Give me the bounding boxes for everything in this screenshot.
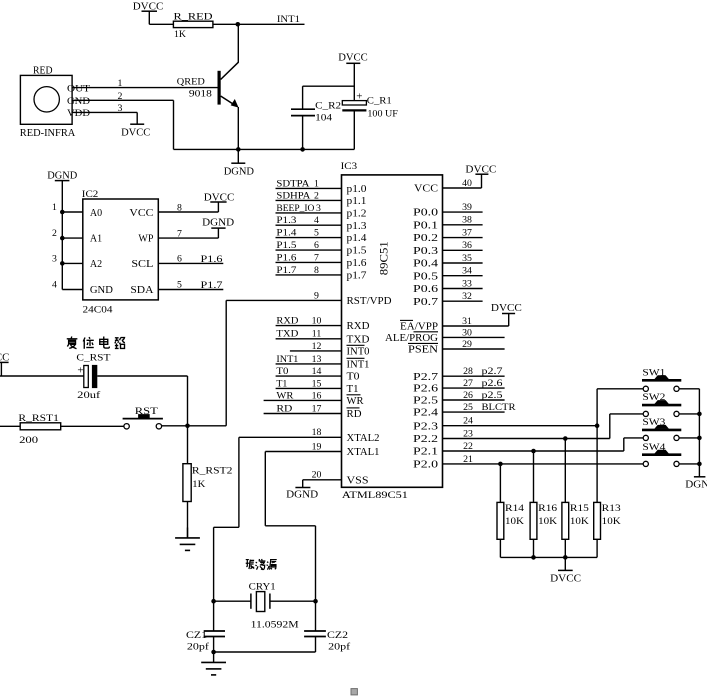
svg-text:C_R1: C_R1 xyxy=(367,96,392,107)
svg-text:200: 200 xyxy=(19,435,38,446)
svg-text:P0.3: P0.3 xyxy=(413,246,438,257)
svg-text:25: 25 xyxy=(463,402,473,413)
resistor R16 10K xyxy=(530,451,557,557)
svg-text:DGND: DGND xyxy=(202,217,234,228)
ground earth (R_RST2) xyxy=(175,528,200,551)
svg-text:3: 3 xyxy=(316,203,321,214)
svg-text:RD: RD xyxy=(347,409,362,420)
power DVCC flag (IC3 pin31) xyxy=(491,303,522,326)
node R13/pin24 junction xyxy=(595,423,600,428)
node reset junction xyxy=(185,424,190,429)
svg-text:89C51: 89C51 xyxy=(379,241,391,275)
svg-text:T0: T0 xyxy=(276,366,288,377)
svg-text:INT1: INT1 xyxy=(276,354,298,365)
switch SW3 xyxy=(624,417,700,451)
node R14/pin21 junction xyxy=(498,462,503,467)
svg-text:SDTPA: SDTPA xyxy=(276,178,309,189)
svg-text:p2.5: p2.5 xyxy=(482,390,503,401)
svg-text:XTAL2: XTAL2 xyxy=(347,433,380,444)
IC RED-INFRA receiver (RED) xyxy=(20,65,90,138)
ground earth (crystal) xyxy=(201,652,226,675)
svg-text:R13: R13 xyxy=(602,503,621,514)
svg-text:18: 18 xyxy=(312,427,322,438)
svg-text:20pf: 20pf xyxy=(328,642,351,653)
svg-text:PSEN: PSEN xyxy=(408,345,438,356)
svg-text:31: 31 xyxy=(462,316,472,327)
ground DGND flag (switch rail, clipped) xyxy=(685,477,707,491)
IC3 pin 15 (T1) wire+labels xyxy=(276,387,342,389)
node SW2 right junction xyxy=(697,412,702,417)
svg-text:P0.4: P0.4 xyxy=(413,259,438,270)
node IC2 pin3 junction xyxy=(60,261,65,266)
svg-text:P2.5: P2.5 xyxy=(413,396,438,407)
svg-text:35: 35 xyxy=(462,253,472,264)
node SW3 right junction xyxy=(697,436,702,441)
svg-text:VCC: VCC xyxy=(129,208,153,219)
svg-text:19: 19 xyxy=(312,441,322,452)
svg-text:39: 39 xyxy=(462,202,472,213)
wire DVCC to R_RED xyxy=(149,23,173,25)
svg-text:IC3: IC3 xyxy=(341,161,358,172)
svg-text:WR: WR xyxy=(276,390,294,401)
svg-text:DVCC: DVCC xyxy=(338,51,368,63)
IC3 pin 10 (RXD) wire+labels xyxy=(276,325,342,327)
svg-text:GND: GND xyxy=(90,285,113,296)
IC3 left pins xyxy=(226,178,391,486)
svg-text:T0: T0 xyxy=(347,372,360,383)
svg-text:P0.1: P0.1 xyxy=(413,220,438,231)
wire IC2 pin8 VCC xyxy=(158,211,218,213)
svg-text:8: 8 xyxy=(314,265,319,276)
svg-text:P0.7: P0.7 xyxy=(413,297,438,308)
svg-text:RST/VPD: RST/VPD xyxy=(347,296,392,307)
wire R_RED to INT1 xyxy=(213,23,305,25)
svg-text:C_R2: C_R2 xyxy=(315,100,341,111)
svg-text:VSS: VSS xyxy=(347,475,369,486)
svg-text:T1: T1 xyxy=(347,384,359,395)
wire RED GND pin2 xyxy=(72,99,173,101)
svg-text:R_RED: R_RED xyxy=(174,11,213,22)
IC3 pin 12 (INT0) wire+labels xyxy=(290,350,342,352)
svg-text:10K: 10K xyxy=(602,516,621,527)
svg-text:BEEP_IO: BEEP_IO xyxy=(276,203,314,214)
wire R_RST1 to RST switch xyxy=(61,425,124,427)
svg-text:22: 22 xyxy=(463,441,473,452)
svg-text:INT0: INT0 xyxy=(347,347,370,358)
node junction at collector/INT1 xyxy=(236,22,241,27)
label title fuwei-dianlu (reset circuit) xyxy=(67,337,125,349)
IC3 pin 6 (p1.5) wire+labels xyxy=(276,249,342,251)
power DVCC flag (IC2 pin8) xyxy=(204,192,235,212)
wire IC2 pin7 WP xyxy=(158,237,218,239)
svg-text:DGND: DGND xyxy=(224,166,255,177)
switch RST pushbutton xyxy=(123,406,163,429)
svg-text:p1.6: p1.6 xyxy=(347,258,367,269)
IC3 pin 7 (p1.6) wire+labels xyxy=(276,261,342,263)
wire RED VDD pin3 to DVCC xyxy=(72,111,137,113)
ground DGND flag (emitter rail) xyxy=(224,149,255,177)
svg-text:1K: 1K xyxy=(192,479,205,490)
svg-text:P2.4: P2.4 xyxy=(413,408,438,419)
svg-text:A2: A2 xyxy=(90,259,102,270)
svg-text:P2.3: P2.3 xyxy=(413,421,438,432)
svg-text:20: 20 xyxy=(312,470,322,481)
svg-text:15: 15 xyxy=(312,378,322,389)
ground DGND flag (IC2 pin7) xyxy=(202,217,234,238)
svg-text:11: 11 xyxy=(312,329,322,340)
svg-text:P1.3: P1.3 xyxy=(276,215,296,226)
svg-text:RXD: RXD xyxy=(276,316,298,327)
svg-text:9018: 9018 xyxy=(189,89,212,100)
svg-text:P1.4: P1.4 xyxy=(276,228,296,239)
svg-text:p1.2: p1.2 xyxy=(347,209,367,220)
IC3 pin 17 (RD) wire+labels xyxy=(264,413,342,415)
resistor R13 10K xyxy=(594,426,621,558)
svg-text:P2.7: P2.7 xyxy=(413,372,438,383)
wire IC2 pin6 SCL xyxy=(158,262,223,264)
svg-text:DVCC: DVCC xyxy=(121,127,150,138)
svg-text:p2.7: p2.7 xyxy=(482,366,503,377)
svg-text:5: 5 xyxy=(314,228,319,239)
power DVCC flag (left edge, clipped) xyxy=(0,353,9,376)
svg-text:5: 5 xyxy=(177,280,182,291)
svg-text:p1.7: p1.7 xyxy=(347,271,367,282)
IC3 pin 9 (RST/VPD) wire+labels xyxy=(226,299,341,301)
IC3 pin 11 (TXD) wire+labels xyxy=(276,338,342,340)
svg-text:100 UF: 100 UF xyxy=(367,109,398,120)
svg-text:EA/VPP: EA/VPP xyxy=(400,322,438,333)
svg-text:36: 36 xyxy=(462,240,472,251)
capacitor CZ1 20pf xyxy=(186,601,225,653)
IC3 pin 16 (WR) wire+labels xyxy=(264,399,342,401)
svg-text:20pf: 20pf xyxy=(187,642,210,653)
svg-text:P1.7: P1.7 xyxy=(201,280,223,291)
IC3 pin 3 (p1.2) wire+labels xyxy=(276,212,342,214)
svg-text:P0.2: P0.2 xyxy=(413,233,438,244)
svg-text:28: 28 xyxy=(463,366,473,377)
wire DVCC to C_RST xyxy=(0,375,84,377)
wire DVCC to R_RST1 xyxy=(0,425,20,427)
svg-text:26: 26 xyxy=(463,390,473,401)
svg-text:27: 27 xyxy=(463,378,473,389)
IC3 pin 2 (p1.1) wire+labels xyxy=(276,199,342,201)
svg-text:C_RST: C_RST xyxy=(76,353,110,364)
wire emitter ground rail xyxy=(174,148,355,150)
node R15/pin23 junction xyxy=(563,436,568,441)
svg-text:30: 30 xyxy=(462,327,472,338)
svg-text:6: 6 xyxy=(314,240,319,251)
svg-text:TXD: TXD xyxy=(276,329,298,340)
svg-text:DVCC: DVCC xyxy=(550,574,581,585)
svg-text:CZ1: CZ1 xyxy=(186,630,207,641)
wire reset node up to pin9 xyxy=(225,300,227,425)
node emitter/ground junction xyxy=(236,147,241,152)
svg-text:GND: GND xyxy=(67,96,90,107)
svg-text:37: 37 xyxy=(462,228,472,239)
svg-text:2: 2 xyxy=(52,228,57,239)
IC3 pin 5 (p1.4) wire+labels xyxy=(276,237,342,239)
svg-text:DVCC: DVCC xyxy=(465,164,496,175)
svg-text:104: 104 xyxy=(315,112,332,123)
svg-text:TXD: TXD xyxy=(347,334,370,345)
svg-text:p1.3: p1.3 xyxy=(347,221,367,232)
IC3 pin 20 (VSS) wire+labels xyxy=(303,479,342,481)
node rail R16 junction xyxy=(531,555,536,560)
wire IC2 pin4 xyxy=(62,289,83,291)
IC U-IC2 24C04 xyxy=(82,189,159,315)
svg-text:R_RST1: R_RST1 xyxy=(18,413,59,424)
svg-text:SDA: SDA xyxy=(130,285,154,296)
svg-text:CZ2: CZ2 xyxy=(327,630,348,641)
node C_R2 junction xyxy=(300,147,305,152)
svg-text:4: 4 xyxy=(314,215,319,226)
svg-text:DGND: DGND xyxy=(685,479,707,490)
svg-text:17: 17 xyxy=(312,403,322,414)
svg-text:29: 29 xyxy=(462,339,472,350)
IC U-IC3 ATML89C51 body xyxy=(341,161,443,501)
svg-text:38: 38 xyxy=(462,215,472,226)
svg-text:10K: 10K xyxy=(505,516,524,527)
svg-text:ALE/PROG: ALE/PROG xyxy=(385,333,438,344)
svg-text:32: 32 xyxy=(462,291,472,302)
svg-text:+: + xyxy=(77,364,83,376)
svg-text:23: 23 xyxy=(463,428,473,439)
power DVCC flag (IC3 pin40) xyxy=(465,164,496,188)
node rail DVCC junction xyxy=(563,555,568,560)
node IC2 pin1 junction xyxy=(60,210,65,215)
wire RST switch to junction xyxy=(162,425,227,427)
svg-text:P0.0: P0.0 xyxy=(413,208,438,219)
node crystal right junction xyxy=(313,599,318,604)
node R16/pin22 junction xyxy=(531,449,536,454)
svg-text:33: 33 xyxy=(462,278,472,289)
svg-text:16: 16 xyxy=(312,390,322,401)
svg-text:P2.2: P2.2 xyxy=(413,434,438,445)
svg-text:R_RST2: R_RST2 xyxy=(192,465,233,476)
node crystal left junction xyxy=(211,599,216,604)
svg-text:SDHPA: SDHPA xyxy=(276,190,310,201)
wire XTAL2 pin18 to crystal xyxy=(238,437,240,527)
IC3 pin 14 (T0) wire+labels xyxy=(276,375,342,377)
node IC2 pin2 junction xyxy=(60,236,65,241)
svg-text:10K: 10K xyxy=(538,516,557,527)
svg-text:ATML89C51: ATML89C51 xyxy=(342,490,408,501)
decoration gray handle xyxy=(351,689,357,695)
resistor R15 10K xyxy=(562,439,589,558)
capacitor C_R1 100UF xyxy=(342,91,398,150)
IC3 right pins xyxy=(385,178,643,471)
power DVCC flag (above C_R1) xyxy=(338,51,368,100)
svg-text:p1.1: p1.1 xyxy=(347,196,367,207)
IC3 pin 1 (p1.0) wire+labels xyxy=(276,187,342,189)
svg-text:P2.1: P2.1 xyxy=(413,447,438,458)
svg-text:40: 40 xyxy=(462,178,472,189)
wire IC2 pin2 xyxy=(62,237,83,239)
switch SW2 xyxy=(610,392,700,438)
svg-text:P1.5: P1.5 xyxy=(276,240,296,251)
svg-text:A1: A1 xyxy=(90,234,102,245)
power DVCC flag (top left) xyxy=(133,0,164,24)
svg-text:RD: RD xyxy=(276,403,292,414)
wire IC2 pin5 SDA xyxy=(158,289,223,291)
ground DGND flag (IC3 pin20 VSS) xyxy=(286,480,318,501)
svg-text:+: + xyxy=(356,91,362,103)
svg-text:24: 24 xyxy=(463,416,473,427)
svg-text:7: 7 xyxy=(314,252,319,263)
svg-text:8: 8 xyxy=(177,202,182,213)
svg-text:10K: 10K xyxy=(570,516,589,527)
crystal CRY1 11.0592M xyxy=(214,582,316,631)
svg-text:p2.6: p2.6 xyxy=(482,378,503,389)
svg-text:14: 14 xyxy=(312,366,322,377)
svg-text:p1.0: p1.0 xyxy=(347,184,367,195)
wire switches common right rail xyxy=(698,389,700,477)
svg-text:11.0592M: 11.0592M xyxy=(251,620,299,631)
wire pull-up common rail xyxy=(500,556,597,558)
power DVCC flag (RED VDD) xyxy=(121,112,150,138)
ground DGND flag (IC2 address pins) xyxy=(47,171,77,290)
svg-text:BLCTR: BLCTR xyxy=(482,402,516,413)
svg-text:INT1: INT1 xyxy=(277,14,300,25)
label title zhendangyuan (oscillator source) xyxy=(246,559,277,570)
svg-text:DVCC: DVCC xyxy=(204,192,235,203)
power DVCC flag (pull-up rail) xyxy=(550,557,581,584)
svg-text:RED-INFRA: RED-INFRA xyxy=(20,128,76,139)
resistor R_RST1 200 xyxy=(18,413,60,446)
svg-text:9: 9 xyxy=(314,290,319,301)
svg-text:R16: R16 xyxy=(538,503,557,514)
svg-text:QRED: QRED xyxy=(177,77,205,88)
IC3 pin 19 (XTAL1) wire+labels xyxy=(265,451,341,453)
node SW4 right junction xyxy=(697,462,702,467)
svg-text:A0: A0 xyxy=(90,208,102,219)
svg-text:P0.6: P0.6 xyxy=(413,284,438,295)
svg-text:P1.6: P1.6 xyxy=(201,254,223,265)
svg-text:34: 34 xyxy=(462,266,472,277)
wire IC2 pin3 xyxy=(62,262,83,264)
svg-text:VCC: VCC xyxy=(414,184,438,195)
svg-text:P0.5: P0.5 xyxy=(413,271,438,282)
svg-text:XTAL1: XTAL1 xyxy=(347,447,380,458)
svg-text:p1.4: p1.4 xyxy=(347,233,367,244)
svg-text:P1.6: P1.6 xyxy=(276,252,296,263)
switch SW1 xyxy=(597,367,699,425)
svg-text:VDD: VDD xyxy=(67,108,90,119)
svg-text:21: 21 xyxy=(463,454,473,465)
svg-text:RXD: RXD xyxy=(347,321,370,332)
svg-text:T1: T1 xyxy=(276,378,287,389)
svg-text:2: 2 xyxy=(314,190,319,201)
svg-text:R15: R15 xyxy=(570,503,589,514)
wire RED OUT pin1 to QRED base xyxy=(72,87,218,89)
svg-text:WP: WP xyxy=(138,234,153,245)
wire IC2 pin1 xyxy=(62,211,83,213)
IC3 pin 13 (INT1) wire+labels xyxy=(276,363,342,365)
svg-text:10: 10 xyxy=(312,316,322,327)
node crystal ground junction xyxy=(211,650,216,655)
resistor R_RED 1K xyxy=(173,11,213,40)
svg-text:3: 3 xyxy=(52,253,57,264)
IC3 pin 4 (p1.3) wire+labels xyxy=(276,224,342,226)
svg-text:INT1: INT1 xyxy=(347,360,370,371)
svg-text:SCL: SCL xyxy=(131,259,153,270)
svg-text:20uf: 20uf xyxy=(77,390,101,401)
svg-text:P2.6: P2.6 xyxy=(413,384,438,395)
svg-text:7: 7 xyxy=(177,228,182,239)
capacitor C_R2 104 xyxy=(291,86,354,149)
svg-text:R14: R14 xyxy=(505,503,524,514)
transistor QRED 9018 xyxy=(177,24,239,149)
IC3 pin 18 (XTAL2) wire+labels xyxy=(239,436,342,438)
svg-text:P1.7: P1.7 xyxy=(276,265,296,276)
IC3 pin 8 (p1.7) wire+labels xyxy=(276,274,342,276)
capacitor CZ2 20pf xyxy=(304,601,351,653)
svg-text:1K: 1K xyxy=(174,29,186,40)
svg-text:WR: WR xyxy=(347,396,364,407)
svg-text:1: 1 xyxy=(52,202,57,213)
svg-text:OUT: OUT xyxy=(67,83,90,94)
svg-text:6: 6 xyxy=(177,254,182,265)
wire crystal bottom rail xyxy=(214,651,316,653)
svg-text:DGND: DGND xyxy=(286,490,318,501)
svg-text:4: 4 xyxy=(52,280,57,291)
switch SW4 xyxy=(642,442,699,467)
svg-text:24C04: 24C04 xyxy=(83,304,113,315)
svg-text:13: 13 xyxy=(312,354,322,365)
svg-text:P2.0: P2.0 xyxy=(413,460,438,471)
capacitor C_RST 20uf xyxy=(76,353,110,402)
svg-text:12: 12 xyxy=(312,341,322,352)
resistor R_RST2 1K xyxy=(183,426,233,538)
resistor R14 10K xyxy=(497,464,524,558)
svg-text:DVCC: DVCC xyxy=(491,303,522,314)
wire XTAL1 pin19 to crystal xyxy=(264,452,266,526)
svg-text:1: 1 xyxy=(314,178,319,189)
wire C_RST to RST node xyxy=(97,375,187,377)
svg-text:p1.5: p1.5 xyxy=(347,246,367,257)
